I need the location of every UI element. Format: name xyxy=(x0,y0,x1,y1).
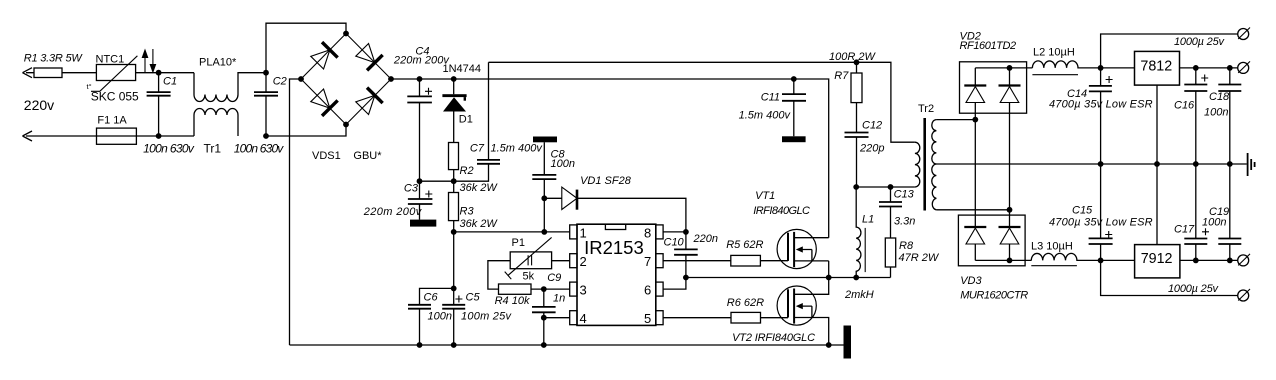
svg-text:36k 2W: 36k 2W xyxy=(460,182,499,194)
wire secondary center tap xyxy=(936,163,1246,165)
zener diode D1 1N4744 xyxy=(453,79,455,143)
svg-text:C17: C17 xyxy=(1174,224,1195,236)
node C4 top xyxy=(417,76,423,82)
svg-text:7812: 7812 xyxy=(1140,59,1172,75)
capacitor C11 with chassis bar xyxy=(793,79,795,136)
node secondary bottom xyxy=(1007,207,1013,213)
capacitor C3 xyxy=(419,181,421,219)
wire primary bottom xyxy=(856,186,915,188)
svg-text:VT2 IRFI840GLC: VT2 IRFI840GLC xyxy=(732,332,815,344)
rectifier VD3 MUR1620CTR xyxy=(958,215,1025,266)
svg-text:8: 8 xyxy=(644,225,651,240)
capacitor C6 xyxy=(419,309,421,345)
pin 8 xyxy=(656,225,663,239)
svg-text:R7: R7 xyxy=(834,70,849,82)
wire pin7 to R5 xyxy=(663,260,731,262)
bridge node top xyxy=(343,31,349,37)
node R4/C9/pin3 xyxy=(541,286,547,292)
wire 7812 out xyxy=(1180,67,1238,69)
node C2 bottom xyxy=(263,133,269,139)
bridge node right xyxy=(388,76,394,82)
diode VD1 SF28 xyxy=(544,198,686,232)
svg-text:VD1 SF28: VD1 SF28 xyxy=(580,175,632,187)
svg-text:220n: 220n xyxy=(693,233,718,245)
svg-text:C16: C16 xyxy=(1174,100,1195,112)
wire raw - to bottom terminal xyxy=(1101,260,1238,295)
wire AC feed down xyxy=(974,120,976,227)
transformer Tr2 primary xyxy=(915,142,920,187)
svg-text:R6 62R: R6 62R xyxy=(727,297,764,309)
wire pin4 to ground xyxy=(544,318,570,345)
regulator 7912 xyxy=(1101,259,1135,261)
VD3 left diode xyxy=(964,226,986,228)
capacitor C16 xyxy=(1195,68,1197,164)
terminal top xyxy=(1238,28,1250,40)
wire C2 to bridge bottom xyxy=(266,125,346,137)
wire 7912 out xyxy=(1180,259,1238,261)
svg-text:R5 62R: R5 62R xyxy=(726,239,763,251)
capacitor C14 xyxy=(1100,68,1102,164)
chassis bar bottom right xyxy=(844,326,852,359)
terminal +12 xyxy=(1238,61,1250,73)
svg-text:3: 3 xyxy=(580,283,587,298)
VD2 cathode bus xyxy=(975,67,1032,69)
IC IR2153 xyxy=(577,224,656,325)
rectifier VD2 RF1601TD2 xyxy=(960,62,1027,113)
svg-text:IRFI840GLC: IRFI840GLC xyxy=(753,205,810,217)
capacitor C10 xyxy=(685,232,687,278)
wire top bus xyxy=(489,62,915,142)
node C2 top xyxy=(263,70,269,76)
wire top AC input xyxy=(26,72,194,74)
node C3 top xyxy=(417,178,423,184)
VD3 right diode xyxy=(999,226,1021,228)
svg-text:100n: 100n xyxy=(1204,107,1228,119)
svg-text:C6: C6 xyxy=(424,291,439,303)
svg-text:4700µ 35v Low ESR: 4700µ 35v Low ESR xyxy=(1049,217,1153,229)
arrow up xyxy=(144,56,146,72)
resistor R7 xyxy=(856,62,858,73)
svg-text:GBU*: GBU* xyxy=(353,150,382,162)
svg-text:Tr1: Tr1 xyxy=(204,142,222,156)
node L1 bottom xyxy=(853,275,859,281)
resistor R5 xyxy=(731,255,761,266)
pin 4 xyxy=(570,311,577,325)
capacitor C19 xyxy=(1229,164,1231,260)
wire pin5 to R6 xyxy=(663,317,731,319)
arrow input bottom xyxy=(23,131,33,141)
svg-text:C18: C18 xyxy=(1209,91,1230,103)
regulator 7812 xyxy=(1135,51,1180,85)
svg-text:C7: C7 xyxy=(470,142,485,154)
capacitor C2 xyxy=(265,73,267,136)
wire Vcc pin1 xyxy=(454,231,570,233)
ground symbol xyxy=(1247,153,1249,176)
node C1 top xyxy=(156,70,162,76)
svg-text:6: 6 xyxy=(644,283,651,298)
transformer Tr2 secondary upper xyxy=(932,120,937,164)
capacitor C15 xyxy=(1100,164,1102,260)
svg-text:F1 1A: F1 1A xyxy=(97,115,127,127)
VD3 anode bus xyxy=(975,259,1031,261)
svg-text:C12: C12 xyxy=(862,119,882,131)
svg-text:3.3n: 3.3n xyxy=(894,216,915,228)
wire bridge minus drop xyxy=(290,79,302,345)
VD2 left diode xyxy=(974,68,976,86)
bridge node left xyxy=(298,76,304,82)
pin 1 xyxy=(570,225,577,239)
svg-text:C15: C15 xyxy=(1072,205,1093,217)
capacitor C8 with chassis bar xyxy=(533,137,557,143)
svg-text:C10: C10 xyxy=(664,236,685,248)
wire node to 7812 xyxy=(1101,67,1135,69)
terminal bottom xyxy=(1238,289,1250,301)
pin 5 xyxy=(656,311,663,325)
wire secondary bottom xyxy=(936,209,1009,211)
svg-text:220p: 220p xyxy=(859,143,884,155)
potentiometer P1 xyxy=(510,252,551,269)
bridge diode top-left xyxy=(309,42,337,70)
svg-text:C11: C11 xyxy=(761,92,780,104)
svg-text:1.5m 400v: 1.5m 400v xyxy=(491,142,544,154)
VD2 right diode xyxy=(1009,68,1011,86)
svg-text:C1: C1 xyxy=(163,76,177,88)
arrow down xyxy=(152,49,154,65)
node R2/R3 junction xyxy=(451,178,457,184)
bridge VDS1 diamond xyxy=(301,34,391,125)
svg-text:L3 10µH: L3 10µH xyxy=(1031,240,1073,252)
wire C2 to bridge top xyxy=(266,23,346,72)
svg-text:R3: R3 xyxy=(460,205,475,217)
ground rail bottom xyxy=(290,344,844,346)
svg-text:7912: 7912 xyxy=(1141,251,1173,267)
svg-text:100m 25v: 100m 25v xyxy=(461,310,513,322)
resistor R8 xyxy=(885,238,895,267)
svg-text:C2: C2 xyxy=(273,76,287,88)
capacitor C17 xyxy=(1195,164,1197,260)
transformer Tr2 core xyxy=(923,118,926,211)
svg-text:P1: P1 xyxy=(512,237,525,249)
node VD1 anode xyxy=(541,195,547,201)
node -raw xyxy=(1098,258,1104,264)
pin 3 xyxy=(570,282,577,296)
resistor R3 xyxy=(453,181,455,192)
wire main +310V rail xyxy=(391,79,829,238)
svg-text:7: 7 xyxy=(644,254,651,269)
svg-text:C13: C13 xyxy=(894,189,915,201)
capacitor C7 xyxy=(488,62,490,160)
resistor R6 xyxy=(731,312,761,323)
node VT2 source/ground xyxy=(826,342,832,348)
capacitor C9 xyxy=(543,289,545,318)
svg-text:36k 2W: 36k 2W xyxy=(460,218,499,230)
resistor R1 xyxy=(34,68,62,78)
capacitor C13 xyxy=(890,187,892,238)
inductor L1 xyxy=(856,187,861,278)
svg-text:1N4744: 1N4744 xyxy=(443,63,482,75)
bridge diode bottom-right xyxy=(354,88,382,116)
svg-text:R4 10k: R4 10k xyxy=(495,295,530,307)
svg-text:1: 1 xyxy=(580,225,587,240)
svg-text:100n 630v: 100n 630v xyxy=(234,142,284,156)
bridge diode top-right xyxy=(354,42,382,70)
transistor VT2 xyxy=(777,278,829,346)
wire bottom AC input xyxy=(26,135,194,137)
svg-text:R2: R2 xyxy=(460,165,474,177)
svg-text:R1 3.3R 5W: R1 3.3R 5W xyxy=(24,52,84,64)
inductor L2 xyxy=(1032,61,1100,68)
svg-text:2: 2 xyxy=(580,254,587,269)
svg-text:MUR1620CTR: MUR1620CTR xyxy=(960,290,1028,302)
bridge diode bottom-left xyxy=(309,88,337,116)
svg-text:4: 4 xyxy=(580,311,587,326)
svg-text:L2 10µH: L2 10µH xyxy=(1033,47,1075,59)
svg-text:IR2153: IR2153 xyxy=(584,237,644,258)
svg-text:1000µ 25v: 1000µ 25v xyxy=(1168,283,1220,295)
svg-text:47R 2W: 47R 2W xyxy=(899,252,940,264)
capacitor C5 xyxy=(453,288,455,345)
choke Tr1 PLA10 top winding xyxy=(194,73,266,102)
wire C3 junction rail xyxy=(420,164,489,181)
svg-text:220v: 220v xyxy=(24,97,54,113)
wire pin8 xyxy=(663,231,686,233)
svg-text:C5: C5 xyxy=(466,291,481,303)
svg-text:5: 5 xyxy=(644,311,651,326)
resistor R4 xyxy=(499,284,532,294)
svg-text:C3: C3 xyxy=(404,183,419,195)
wire 7812 gnd xyxy=(1156,85,1158,164)
nodes on 0V rail xyxy=(1098,161,1104,167)
svg-text:1000µ 25v: 1000µ 25v xyxy=(1174,36,1226,48)
svg-text:Tr2: Tr2 xyxy=(918,103,934,115)
capacitor C12 xyxy=(845,133,869,138)
node C1 bottom xyxy=(156,133,162,139)
svg-text:RF1601TD2: RF1601TD2 xyxy=(960,40,1017,52)
terminal -12 xyxy=(1238,254,1250,266)
node C11 xyxy=(791,76,797,82)
svg-text:VDS1: VDS1 xyxy=(312,150,341,162)
wire secondary top xyxy=(936,119,975,121)
svg-text:1.5m 400v: 1.5m 400v xyxy=(739,109,792,121)
svg-text:R8: R8 xyxy=(899,240,914,252)
node +raw xyxy=(1098,65,1104,71)
wire VT1 source down xyxy=(828,261,830,278)
bridge node bottom xyxy=(343,122,349,128)
svg-text:5k: 5k xyxy=(523,271,535,283)
node C5 top xyxy=(451,286,457,292)
pin 7 xyxy=(656,254,663,268)
svg-text:220m 200v: 220m 200v xyxy=(363,206,423,218)
resistor R2 xyxy=(449,143,459,170)
svg-text:100n: 100n xyxy=(428,310,452,322)
node D1 top xyxy=(451,76,457,82)
svg-text:4700µ 35v Low ESR: 4700µ 35v Low ESR xyxy=(1049,98,1153,110)
inductor L3 xyxy=(1031,253,1100,260)
wire raw + to top terminal xyxy=(1101,34,1238,68)
svg-text:100n 630v: 100n 630v xyxy=(143,142,195,156)
svg-text:NTC1: NTC1 xyxy=(96,54,125,66)
wire C6 branch xyxy=(420,288,454,304)
node C13 top xyxy=(888,184,894,190)
node C12 bottom xyxy=(853,184,859,190)
transistor VT1 xyxy=(777,229,829,268)
capacitor C1 xyxy=(158,73,160,136)
transformer Tr2 secondary lower xyxy=(932,164,937,210)
node secondary top xyxy=(972,117,978,123)
pin 6 xyxy=(656,282,663,296)
svg-text:2mkH: 2mkH xyxy=(844,289,874,301)
node half-bridge midpoint xyxy=(826,275,832,281)
node R7 top xyxy=(854,59,860,65)
svg-text:C9: C9 xyxy=(547,272,561,284)
svg-text:VT1: VT1 xyxy=(755,190,775,202)
svg-text:SKC 055: SKC 055 xyxy=(91,90,139,104)
svg-text:D1: D1 xyxy=(459,113,473,125)
fuse F1 xyxy=(97,128,137,144)
arrow input top xyxy=(23,68,33,78)
svg-text:100n: 100n xyxy=(1202,217,1226,229)
svg-text:100n: 100n xyxy=(551,158,575,170)
pin 2 xyxy=(570,254,577,268)
svg-text:PLA10*: PLA10* xyxy=(199,56,237,68)
node pin8/C10 xyxy=(683,229,689,235)
wire pin6 to VS node xyxy=(663,278,686,290)
thermistor NTC1 xyxy=(96,65,135,81)
node VS rail left xyxy=(683,275,689,281)
choke Tr1 bottom winding xyxy=(194,109,238,136)
svg-text:L1: L1 xyxy=(862,213,874,225)
capacitor C18 xyxy=(1229,68,1231,164)
svg-text:1n: 1n xyxy=(553,293,565,305)
capacitor C4 xyxy=(419,79,421,181)
svg-text:100R 2W: 100R 2W xyxy=(829,51,876,63)
svg-text:VD3: VD3 xyxy=(960,275,982,287)
VS midpoint rail xyxy=(686,277,891,279)
